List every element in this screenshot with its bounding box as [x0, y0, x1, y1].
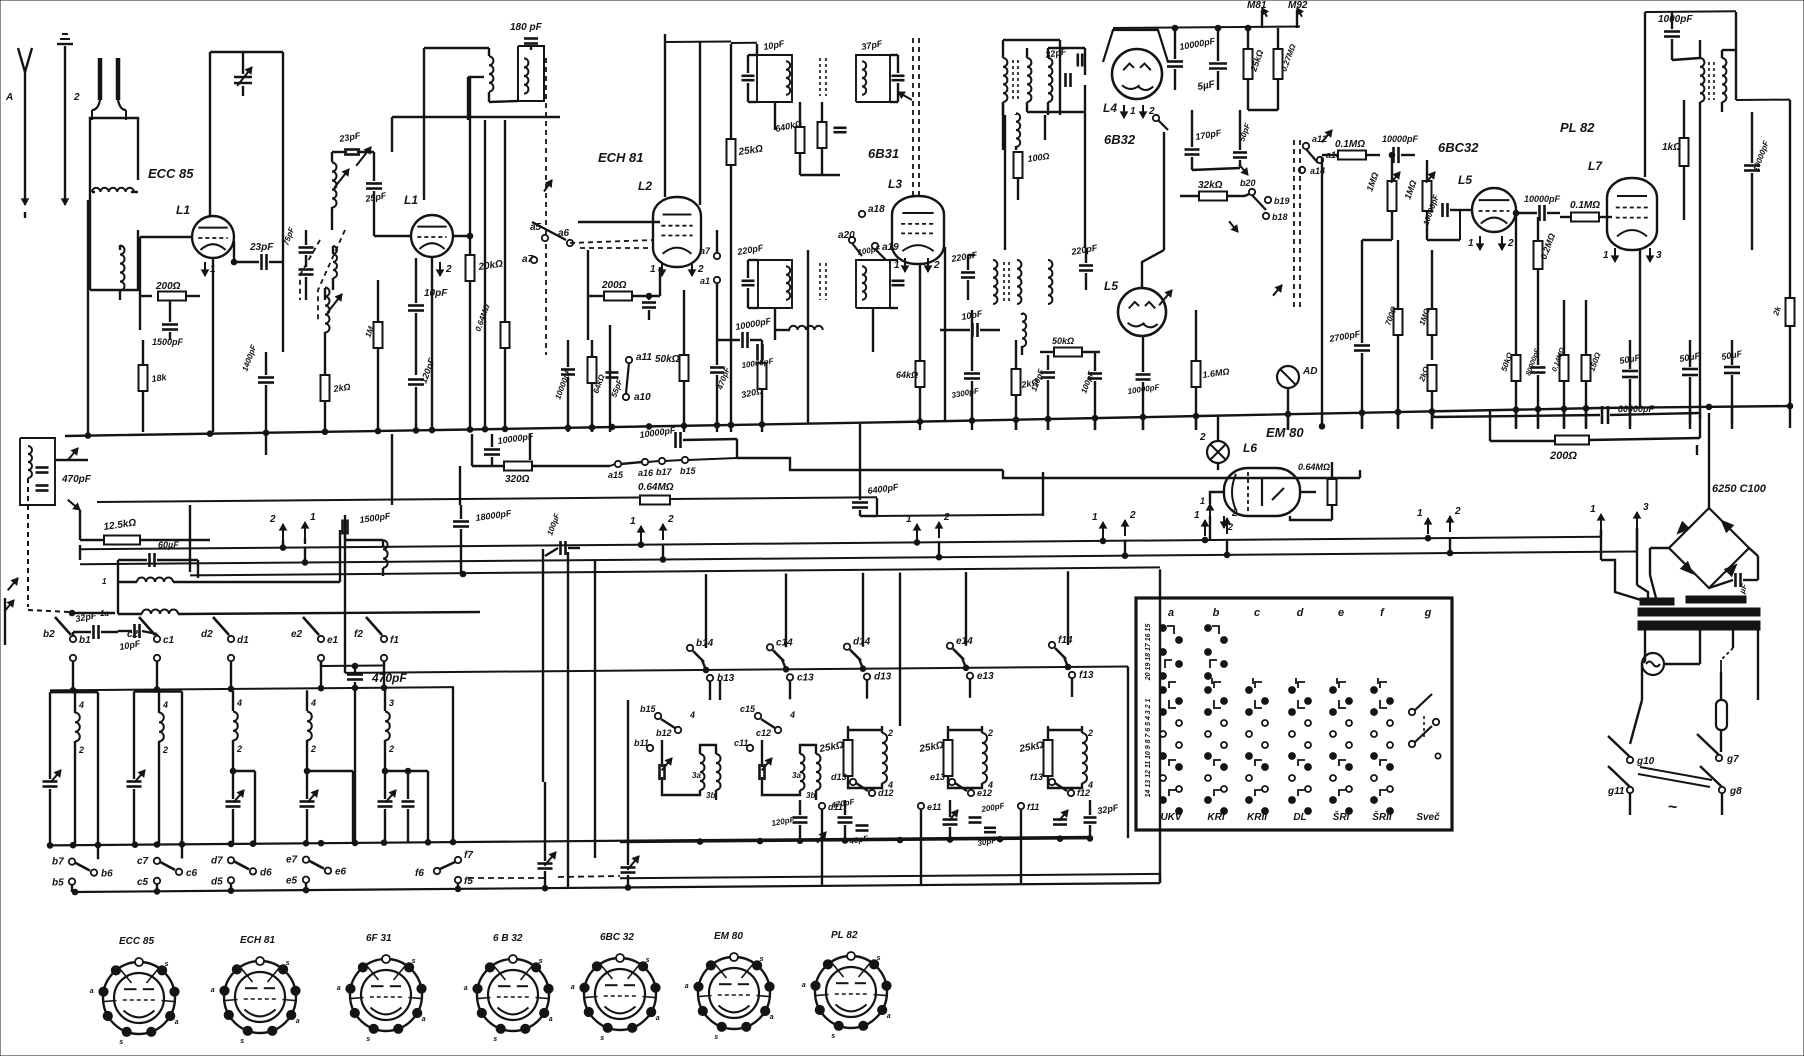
svg-text:2: 2: [1199, 432, 1206, 443]
switch d13 d12 d11: [819, 772, 894, 812]
dashed shield line right of 6B32: [1273, 140, 1300, 310]
svg-text:L1: L1: [176, 203, 190, 217]
resistor right edge: [1771, 298, 1794, 326]
svg-text:e: e: [1338, 607, 1344, 619]
svg-text:2: 2: [1227, 522, 1233, 532]
svg-text:s: s: [714, 1034, 718, 1041]
svg-text:1000pF: 1000pF: [1658, 14, 1693, 25]
tube ECC85 half 2: [411, 215, 453, 257]
resistor 320 Ohm: [740, 340, 766, 432]
svg-text:e6: e6: [335, 867, 347, 878]
svg-text:a: a: [770, 1014, 774, 1021]
ferrite tuner coils: [300, 130, 388, 320]
switch row a15 a16 b17 b15: [608, 457, 737, 480]
resistor 1.6M: [1192, 310, 1231, 430]
IF transformer 1 secondary: [820, 38, 905, 102]
svg-text:ECH 81: ECH 81: [240, 935, 275, 946]
svg-text:200Ω: 200Ω: [601, 280, 627, 291]
svg-text:32kΩ: 32kΩ: [1198, 180, 1223, 191]
svg-text:3a: 3a: [792, 771, 801, 780]
switch b2 b1: [43, 617, 91, 690]
resistor 200 Ohm cathode: [140, 250, 200, 330]
capacitor f aux: [402, 768, 415, 842]
resistor 640k: [774, 102, 804, 175]
resistor 1k: [1662, 100, 1689, 220]
svg-text:6F 31: 6F 31: [366, 933, 392, 944]
svg-text:L5: L5: [1458, 173, 1472, 187]
svg-text:3: 3: [1643, 502, 1649, 513]
svg-text:UKV: UKV: [1160, 812, 1182, 823]
switch b7 b6 b5: [52, 857, 113, 892]
svg-text:60µF: 60µF: [158, 540, 179, 550]
svg-text:a: a: [549, 1016, 553, 1023]
wire antenna net: [25, 196, 88, 432]
socket PL82: [802, 930, 891, 1040]
svg-text:4: 4: [789, 710, 795, 720]
svg-text:s: s: [366, 1036, 370, 1043]
capacitor 32pF row1: [73, 610, 118, 639]
svg-text:3: 3: [389, 698, 394, 708]
resistor 64k 6B31: [896, 264, 925, 430]
capacitor 120pF: [408, 356, 437, 432]
svg-text:s: s: [600, 1035, 604, 1042]
tuned circuit c group: [734, 704, 821, 800]
cap row 470pF and 40pF: [817, 797, 870, 846]
resistor 50k ps: [1499, 280, 1520, 428]
svg-text:s: s: [412, 958, 416, 965]
tuned circuit c lower: [127, 692, 183, 859]
svg-text:a: a: [802, 982, 806, 989]
switch b20 b19 b18: [1229, 178, 1290, 232]
switch e14 e13: [947, 636, 994, 698]
capacitor 100pF mid: [1079, 352, 1102, 430]
power transformer: [1638, 548, 1760, 700]
capacitor 1000pF top: [1658, 12, 1693, 60]
extra top verticals: [968, 40, 1700, 838]
svg-text:c13: c13: [797, 672, 814, 683]
table row labels lower: [1145, 699, 1152, 798]
coil cathode 6B31: [775, 326, 823, 330]
switch a18 a20 a19: [838, 204, 899, 260]
svg-text:3b: 3b: [806, 791, 815, 800]
svg-text:g10: g10: [1636, 756, 1655, 767]
wire IF to grid: [731, 43, 757, 55]
resistor 20k: [466, 77, 504, 432]
switch position table box: [1136, 598, 1452, 830]
svg-text:a: a: [571, 984, 575, 991]
svg-text:b5: b5: [52, 878, 64, 889]
svg-text:d13: d13: [831, 772, 847, 782]
svg-text:1: 1: [1603, 250, 1609, 261]
resistor 64k rot: [588, 340, 607, 432]
long pull line 1: [80, 537, 1637, 565]
resistor 18k: [139, 340, 169, 432]
svg-text:ECH 81: ECH 81: [598, 150, 644, 165]
svg-text:1: 1: [102, 577, 107, 586]
switch f7 f6 f5: [415, 850, 473, 889]
wire plate 2: [453, 233, 473, 239]
capacitor 10pF row1: [118, 624, 157, 652]
arrow pair right e: [1417, 506, 1461, 534]
capacitor 1500pF mid: [343, 511, 392, 540]
svg-text:2: 2: [887, 728, 893, 738]
output transformer: [1672, 40, 1726, 120]
svg-text:10000pF: 10000pF: [1382, 134, 1419, 144]
resistor 1M vertical: [363, 280, 382, 432]
svg-text:ECC 85: ECC 85: [119, 936, 154, 947]
switch c7 c6 c5: [137, 856, 198, 892]
switch g7: [1697, 734, 1739, 765]
table column headers: [1168, 607, 1432, 619]
svg-text:a5: a5: [530, 222, 542, 233]
capacitor 80000pF ps rail: [1433, 404, 1700, 424]
svg-text:DL: DL: [1293, 812, 1306, 823]
arrow pair 1 left: [269, 512, 316, 546]
AC source symbol: [1642, 650, 1700, 675]
svg-text:d: d: [1297, 607, 1304, 619]
tuned circuit f lower: [378, 690, 429, 843]
svg-text:a: a: [211, 987, 215, 994]
wire triode plate run: [665, 42, 731, 206]
tuned circuit d lower: [226, 691, 256, 844]
IF transformer 2 secondary: [820, 244, 905, 308]
svg-text:1: 1: [1092, 512, 1098, 523]
svg-text:Sveč: Sveč: [1416, 812, 1440, 823]
switch g10: [1608, 662, 1655, 767]
svg-text:1kΩ: 1kΩ: [1662, 142, 1681, 153]
switch g8: [1700, 766, 1742, 815]
bus step 1: [737, 458, 1360, 478]
mid verticals to upper rails: [706, 571, 1068, 726]
capacitor 470pF bank: [347, 666, 407, 844]
svg-text:6B31: 6B31: [868, 146, 899, 161]
svg-text:f13: f13: [1030, 772, 1043, 782]
svg-text:2: 2: [388, 744, 394, 754]
svg-text:b20: b20: [1240, 178, 1256, 188]
capacitor 10pF 6B31: [940, 308, 1000, 337]
lamp dial 2: [1199, 416, 1229, 470]
resistor 12.5k: [80, 510, 210, 545]
capacitor 470pF rot: [700, 230, 732, 432]
resistor 0.2M: [1534, 217, 1558, 330]
svg-text:d5: d5: [211, 876, 223, 887]
svg-text:L4: L4: [1103, 101, 1117, 115]
svg-text:d2: d2: [201, 629, 213, 640]
EM80 arrows: [1200, 496, 1233, 540]
svg-text:2: 2: [445, 264, 452, 275]
switch f14 f13: [1049, 635, 1094, 697]
dashed slug line 6B31: [898, 38, 919, 196]
svg-text:2: 2: [933, 260, 940, 271]
capacitor 10000pF agc: [1382, 134, 1419, 163]
svg-text:1: 1: [310, 512, 316, 523]
svg-text:f12: f12: [1077, 788, 1090, 798]
tuned circuit b lower: [43, 692, 99, 859]
dashed agc line left: [5, 598, 14, 645]
svg-text:1: 1: [1130, 106, 1136, 117]
svg-text:a11: a11: [636, 352, 652, 363]
resistor IF 1 aux: [800, 102, 847, 175]
svg-text:g11: g11: [1607, 786, 1625, 797]
RL group d: [818, 726, 893, 790]
capacitor 10000pF mid: [1127, 336, 1161, 430]
svg-text:a: a: [656, 1015, 660, 1022]
capacitor 5uF: [1197, 28, 1227, 93]
svg-text:a18: a18: [868, 204, 885, 215]
resistor 700 Ohm: [1383, 240, 1402, 428]
wires top right frame: [1645, 11, 1790, 428]
osc transformer coils: [1003, 40, 1031, 115]
resistor 200 Ohm ps: [1490, 410, 1700, 462]
resistor 0.1M agc: [1322, 130, 1380, 160]
svg-text:a: a: [464, 985, 468, 992]
svg-text:e5: e5: [286, 876, 298, 887]
IF transformer 1 primary: [742, 38, 793, 130]
mid bank lowest rail: [620, 810, 1160, 885]
switch e13 e12 e11: [918, 772, 992, 812]
svg-text:1: 1: [1417, 508, 1423, 519]
svg-text:20 19 18 17 16 15: 20 19 18 17 16 15: [1145, 624, 1152, 682]
svg-text:d6: d6: [260, 867, 272, 878]
svg-text:0.1MΩ: 0.1MΩ: [1335, 139, 1365, 150]
input coupling box ECC85: [90, 118, 194, 290]
tube L2: [653, 197, 701, 267]
svg-text:200Ω: 200Ω: [1549, 450, 1577, 462]
cap row 200pF 30pF: [943, 800, 1007, 848]
svg-text:f11: f11: [1027, 802, 1039, 812]
svg-text:a15: a15: [608, 470, 624, 480]
wire IF2 drop verticals: [808, 247, 945, 424]
svg-text:a: a: [175, 1019, 179, 1026]
svg-text:b18: b18: [1272, 212, 1288, 222]
capacitor 10000pF bus: [741, 344, 775, 370]
resistor 200 Ohm ech cathode: [588, 250, 660, 340]
coil f2 line: [102, 530, 340, 586]
svg-text:d13: d13: [874, 672, 892, 683]
capacitor cathode ech: [642, 293, 656, 320]
capacitor 60uF loop: [118, 540, 198, 578]
svg-text:a1: a1: [700, 276, 710, 286]
capacitor 3300pF: [951, 310, 981, 430]
low rail to switch bank: [190, 505, 1160, 575]
grid frame left: [210, 52, 283, 352]
svg-text:1500pF: 1500pF: [152, 337, 184, 347]
RL group f: [1018, 726, 1093, 790]
svg-text:0.64MΩ: 0.64MΩ: [638, 482, 674, 493]
svg-text:c: c: [1254, 607, 1260, 619]
svg-text:g7: g7: [1726, 754, 1739, 765]
antenna A: [5, 48, 32, 205]
osc coils mid: [950, 250, 1022, 304]
svg-text:b7: b7: [52, 857, 64, 868]
svg-text:e13: e13: [930, 772, 945, 782]
capacitor 80000pF ps: [1525, 330, 1545, 428]
svg-text:2: 2: [667, 514, 674, 525]
svg-text:e2: e2: [291, 629, 303, 640]
tuned circuit b group: [634, 700, 730, 800]
svg-text:10000pF: 10000pF: [1524, 194, 1561, 204]
svg-text:1: 1: [894, 260, 900, 271]
svg-text:L6: L6: [1243, 441, 1257, 455]
speaker cap 10000pF right: [1744, 112, 1771, 250]
RL group e: [918, 726, 993, 790]
capacitor 10000pF grid: [1421, 192, 1460, 226]
switch g11: [1607, 766, 1633, 815]
svg-text:a: a: [887, 1013, 891, 1020]
oscillator coil lower: [325, 288, 342, 346]
svg-text:f6: f6: [415, 868, 424, 879]
labels L4 6B32: [1103, 101, 1168, 147]
capacitor 10000pF out: [1516, 194, 1561, 221]
svg-text:e7: e7: [286, 855, 298, 866]
svg-text:ŠRİ: ŠRİ: [1333, 810, 1351, 823]
capacitor bridge output: [1709, 573, 1758, 596]
bus stem extensions right: [1016, 407, 1732, 430]
svg-text:2: 2: [310, 744, 316, 754]
svg-text:s: s: [119, 1039, 123, 1046]
cap row 32pF right: [1053, 800, 1120, 838]
bridge rectifier 6250 C100: [1669, 413, 1767, 588]
tube L5 osc: [1118, 288, 1166, 336]
mid bank lower rail: [620, 569, 1160, 882]
osc coil 2 mid: [1048, 243, 1098, 304]
svg-text:e13: e13: [977, 671, 994, 682]
svg-text:b15: b15: [680, 466, 697, 476]
svg-text:PL 82: PL 82: [831, 930, 858, 941]
switch c2 c1: [127, 617, 175, 690]
svg-text:s: s: [286, 960, 290, 967]
capacitor 180pF top: [510, 22, 543, 50]
switch c14 c13: [767, 637, 814, 699]
svg-text:EM 80: EM 80: [1266, 425, 1304, 440]
socket 6BC32: [571, 932, 660, 1042]
resistor 0.64M: [473, 300, 509, 432]
svg-text:a: a: [90, 988, 94, 995]
svg-text:c1: c1: [163, 635, 175, 646]
svg-text:L2: L2: [638, 179, 652, 193]
svg-text:10pF: 10pF: [424, 288, 448, 299]
svg-text:4: 4: [162, 700, 168, 710]
svg-text:4: 4: [310, 698, 316, 708]
svg-text:a16: a16: [638, 468, 654, 478]
svg-text:2: 2: [269, 514, 276, 525]
coil box top: [518, 46, 544, 101]
table dots upper a: [1160, 625, 1183, 680]
svg-text:6 B 32: 6 B 32: [493, 933, 523, 944]
svg-text:2: 2: [236, 744, 242, 754]
svg-text:50kΩ: 50kΩ: [1052, 336, 1074, 346]
resistor 50k: [655, 290, 689, 432]
wire 0.64M row: [97, 472, 1043, 516]
svg-text:A: A: [5, 92, 13, 103]
svg-text:s: s: [646, 957, 650, 964]
svg-text:b1: b1: [79, 635, 91, 646]
coil mid left: [383, 540, 388, 576]
svg-text:a: a: [685, 983, 689, 990]
tube L3: [892, 196, 944, 264]
svg-text:s: s: [165, 961, 169, 968]
tube L7: [1607, 178, 1657, 250]
coil 6B32 cathode: [1016, 113, 1020, 150]
svg-text:e11: e11: [927, 802, 941, 812]
svg-text:50kΩ: 50kΩ: [655, 354, 680, 365]
wire e1 f1 link: [321, 661, 384, 669]
switch d7 d6 d5: [211, 855, 272, 890]
svg-text:f7: f7: [464, 850, 473, 861]
svg-text:ŠRİİ: ŠRİİ: [1372, 810, 1393, 823]
capacitor 10000pF at bus left: [484, 431, 534, 466]
coil to line: [100, 578, 480, 618]
switch b14 b13: [687, 638, 735, 700]
svg-text:~: ~: [1668, 799, 1677, 816]
table column g switches: [1409, 694, 1441, 759]
svg-text:a: a: [422, 1016, 426, 1023]
coil primary top: [424, 48, 518, 300]
svg-text:6250 C100: 6250 C100: [1712, 483, 1767, 495]
arrow pair mid d: [1194, 508, 1238, 536]
svg-text:b11: b11: [634, 738, 649, 748]
svg-text:L5: L5: [1104, 279, 1118, 293]
svg-text:b6: b6: [101, 869, 113, 880]
svg-text:s: s: [877, 955, 881, 962]
coil lower mid: [1022, 313, 1026, 355]
svg-text:1: 1: [906, 514, 912, 525]
svg-text:6BC32: 6BC32: [1438, 140, 1479, 155]
coupling caps stack 75pF: [281, 225, 337, 300]
switch d14 d13: [844, 637, 892, 699]
tuned circuit e lower: [300, 690, 354, 843]
svg-text:c7: c7: [137, 856, 149, 867]
resistor 32k: [1180, 180, 1245, 201]
svg-text:4: 4: [78, 700, 84, 710]
svg-text:s: s: [240, 1038, 244, 1045]
svg-text:s: s: [539, 958, 543, 965]
table dot matrix main: [1160, 678, 1394, 814]
trimmer box 470pF: [20, 432, 92, 510]
svg-text:6B32: 6B32: [1104, 132, 1136, 147]
arrow pair mid c: [1092, 510, 1136, 538]
tube 6BC32: [1472, 188, 1516, 232]
svg-text:2: 2: [162, 745, 168, 755]
capacitor 170pF: [1185, 110, 1223, 170]
arrow pair mid a: [630, 514, 674, 542]
svg-text:3a: 3a: [692, 771, 701, 780]
arrow M92: [1288, 0, 1308, 28]
capacitor 55pF: [606, 373, 625, 399]
svg-text:a: a: [1168, 607, 1174, 619]
svg-text:80000pF: 80000pF: [1618, 404, 1655, 414]
svg-text:a6: a6: [558, 228, 570, 239]
table bottom labels: [1160, 810, 1440, 823]
capacitor 120pF mid: [1029, 355, 1055, 430]
arrow M81: [1247, 0, 1268, 28]
socket 6F31: [337, 933, 426, 1043]
capacitor 2700pF: [1328, 240, 1370, 428]
switch f13 f12 f11: [1018, 772, 1090, 812]
resistor 2k: [321, 345, 352, 432]
svg-text:4: 4: [236, 698, 242, 708]
svg-text:ECC 85: ECC 85: [148, 166, 194, 181]
svg-text:4: 4: [689, 710, 695, 720]
resistor 50k horiz: [1040, 336, 1100, 357]
svg-text:320Ω: 320Ω: [505, 474, 530, 485]
main bus wire: [65, 403, 1793, 438]
table row labels upper: [1145, 624, 1152, 682]
wire top rail M: [1113, 25, 1300, 31]
svg-text:180 pF: 180 pF: [510, 22, 543, 33]
bottom bus left: [72, 883, 1160, 895]
table dots upper b: [1205, 625, 1228, 680]
